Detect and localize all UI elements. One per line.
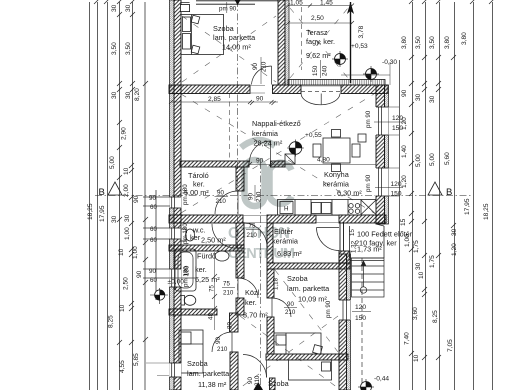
szoba1 door opening and arc [252, 66, 272, 85]
svg-text:Szoba: Szoba [213, 24, 235, 33]
door size labels nappali-közl [248, 191, 263, 202]
window right wall lower [339, 300, 351, 320]
south wall of nappali west segment [169, 215, 243, 223]
svg-text:210: 210 [261, 61, 268, 72]
svg-text:90: 90 [256, 158, 264, 165]
svg-text:pm 90: pm 90 [365, 174, 372, 192]
svg-text:150: 150 [355, 315, 366, 322]
svg-text:ker.: ker. [245, 298, 257, 307]
right outer wall upper [376, 85, 385, 224]
svg-text:Nappali-étkező: Nappali-étkező [252, 119, 301, 128]
bed bottom szoba [289, 360, 332, 380]
svg-text:8,25: 8,25 [432, 310, 439, 323]
south wall middle segment [267, 215, 316, 223]
svg-text:10: 10 [418, 271, 425, 279]
small square near table [358, 134, 366, 142]
svg-text:48: 48 [208, 313, 215, 320]
vertical section dash-dot line lower [259, 162, 261, 390]
bottom szoba left wall [270, 378, 276, 390]
right chain labels [400, 32, 490, 362]
svg-text:210: 210 [256, 191, 263, 202]
svg-text:B: B [446, 187, 452, 198]
taroló top wall stub east [271, 161, 286, 167]
svg-text:+0,55: +0,55 [305, 132, 322, 139]
dim line szoba1 bottom [169, 100, 278, 105]
svg-text:Terasz: Terasz [306, 28, 328, 37]
svg-text:3,50: 3,50 [125, 42, 132, 55]
top wall west segment [169, 85, 250, 94]
svg-text:+0,53: +0,53 [351, 43, 368, 50]
south wall east segment [339, 215, 386, 223]
wc bottom wall [169, 245, 244, 251]
svg-text:1,18: 1,18 [273, 277, 280, 290]
window left wall fürdő [169, 269, 181, 287]
svg-text:9,62 m²: 9,62 m² [306, 51, 331, 60]
svg-text:90: 90 [401, 89, 408, 97]
fürdő bottom wall [169, 309, 217, 315]
svg-text:80: 80 [227, 322, 234, 329]
svg-text:7,05: 7,05 [447, 339, 454, 352]
door előtér arc [317, 228, 340, 251]
svg-text:-0,44: -0,44 [374, 376, 389, 383]
svg-text:30: 30 [125, 91, 132, 99]
entry stairs [352, 258, 385, 297]
svg-text:2,85: 2,85 [208, 96, 221, 103]
svg-text:90: 90 [247, 377, 254, 384]
svg-text:1,20: 1,20 [401, 175, 408, 188]
svg-text:210: 210 [223, 290, 234, 297]
svg-text:lam. parketta: lam. parketta [187, 369, 230, 378]
svg-text:pm 90: pm 90 [365, 110, 372, 128]
terrace vertical dim arrow [347, 2, 354, 14]
svg-text:8,20: 8,20 [134, 88, 141, 101]
terrace right edge line [350, 2, 352, 83]
window right wall 1 [376, 107, 389, 135]
svg-text:2,00: 2,00 [123, 184, 130, 197]
level marker nappali [287, 140, 304, 157]
svg-text:3,60: 3,60 [412, 307, 419, 320]
window left wall taroló [169, 197, 181, 208]
svg-text:2,50: 2,50 [123, 277, 130, 290]
svg-text:10: 10 [123, 167, 130, 175]
svg-text:3,78: 3,78 [358, 25, 365, 38]
vertical section dash-dot line upper [237, 0, 239, 314]
svg-text:90: 90 [136, 270, 143, 278]
left outer wall insulation strip [170, 0, 175, 390]
szoba 10.09 door arc [272, 298, 291, 317]
bottom-left room right wall lower [230, 352, 238, 390]
section marker B left [99, 182, 123, 198]
svg-text:10: 10 [413, 354, 420, 362]
svg-text:210: 210 [254, 375, 261, 386]
left chain labels [87, 4, 143, 373]
svg-text:210: 210 [285, 309, 296, 316]
wc right wall [236, 223, 244, 248]
svg-text:75: 75 [223, 281, 230, 288]
svg-text:210: 210 [217, 346, 228, 353]
svg-text:15: 15 [349, 229, 356, 236]
svg-text:Szoba: Szoba [287, 274, 309, 283]
svg-text:8,25: 8,25 [108, 315, 115, 328]
svg-text:14,00 m²: 14,00 m² [222, 43, 251, 52]
svg-text:6,83 m²: 6,83 m² [277, 249, 302, 258]
svg-text:1,00: 1,00 [124, 227, 131, 240]
svg-text:pm 180: pm 180 [182, 184, 189, 205]
svg-text:Szoba: Szoba [268, 379, 290, 388]
dashed pm line nappali [228, 93, 230, 160]
fürdő-közl wall lower [236, 298, 244, 315]
svg-text:1,45: 1,45 [320, 0, 333, 7]
svg-text:B: B [99, 187, 105, 198]
window left wall bottom room [146, 363, 181, 377]
svg-text:Fürdő: Fürdő [197, 252, 216, 261]
svg-text:75: 75 [209, 285, 216, 292]
svg-text:10: 10 [119, 304, 126, 312]
svg-text:210: 210 [247, 232, 258, 239]
dashed diagonals nappali [181, 94, 374, 213]
level marker -0.30 [363, 66, 379, 82]
svg-text:ker.: ker. [195, 265, 207, 274]
overhang dashed line bottom right [361, 258, 363, 390]
terasz door size label [312, 65, 329, 76]
left window dims column [149, 195, 157, 284]
svg-text:1,00: 1,00 [404, 234, 411, 247]
right wall corner connector lines [341, 62, 399, 196]
level marker terasz [332, 51, 348, 67]
svg-text:60: 60 [150, 237, 157, 244]
bed bottom-left room [179, 330, 203, 373]
svg-text:30: 30 [124, 214, 131, 222]
section marker B right [428, 182, 452, 198]
közl-előtér wall [267, 223, 273, 263]
szoba 10.09 left wall upper [267, 269, 274, 298]
small table nappali [285, 154, 295, 164]
dashed diagonals szoba1 [182, 16, 276, 82]
terrace double door [301, 91, 340, 105]
taroló top wall [180, 161, 249, 167]
svg-text:30: 30 [451, 228, 458, 236]
top-left ledge box [180, 5, 189, 12]
kitchen boundary line [249, 164, 376, 166]
bottom-left room door arc [212, 332, 232, 352]
svg-text:30: 30 [125, 4, 132, 12]
svg-text:1,73 m²: 1,73 m² [357, 245, 382, 254]
bed szoba 10.09 [274, 333, 322, 354]
svg-text:lam. parketta: lam. parketta [287, 284, 330, 293]
svg-text:3,50: 3,50 [111, 42, 118, 55]
svg-text:180: 180 [184, 265, 191, 276]
front door wall stubs [340, 222, 344, 251]
svg-text:kerámia: kerámia [272, 237, 299, 246]
svg-text:3,50: 3,50 [415, 36, 422, 49]
svg-text:pm 90: pm 90 [219, 6, 237, 13]
svg-text:6,25 m²: 6,25 m² [195, 275, 220, 284]
svg-text:-0,30: -0,30 [382, 59, 397, 66]
svg-text:Konyha: Konyha [324, 170, 350, 179]
dashed diagonals bottom rooms [240, 270, 338, 388]
svg-text:10,09 m²: 10,09 m² [298, 295, 327, 304]
window left wall wc [169, 228, 181, 239]
top wall east segment [341, 85, 388, 94]
szoba 10.09 left wall lower [267, 317, 274, 354]
svg-text:240: 240 [322, 65, 329, 76]
door nappali arc at taroló top wall [250, 141, 271, 162]
right dimension chain lines [400, 2, 493, 390]
svg-text:3,80: 3,80 [444, 36, 451, 49]
svg-text:90: 90 [248, 193, 255, 200]
tick marks right chains [409, 0, 494, 360]
fürdő-közl wall upper [236, 251, 244, 278]
tick marks left chains [94, 0, 148, 345]
top window lines szoba1 [196, 1, 278, 4]
bed szoba1 [181, 15, 224, 55]
taroló door arc [215, 191, 238, 214]
svg-text:30: 30 [429, 95, 436, 103]
svg-text:5,85: 5,85 [133, 353, 140, 366]
bath tub [175, 249, 196, 291]
level marker 0.00 [150, 288, 168, 304]
dim 90 taroló top [248, 162, 273, 166]
svg-text:1,40: 1,40 [401, 145, 408, 158]
svg-text:5,00: 5,00 [429, 153, 436, 166]
svg-text:5,00: 5,00 [109, 156, 116, 169]
fedett előtér outline [350, 224, 384, 258]
section arrow bottom [254, 382, 264, 390]
svg-text:90: 90 [287, 301, 294, 308]
svg-text:1,20: 1,20 [451, 243, 458, 256]
dashed diagonals terasz [290, 8, 348, 78]
svg-text:90: 90 [133, 195, 140, 203]
svg-text:ker: ker [190, 233, 201, 242]
svg-text:1,20: 1,20 [401, 117, 408, 130]
svg-text:4,55: 4,55 [119, 360, 126, 373]
fürdő toilet [181, 295, 196, 305]
svg-text:Szoba: Szoba [187, 359, 209, 368]
left dimension chain lines [90, 2, 157, 390]
svg-text:30: 30 [415, 262, 422, 270]
svg-text:75: 75 [249, 223, 256, 230]
svg-text:kerámia: kerámia [323, 180, 350, 189]
svg-text:2,50: 2,50 [311, 15, 324, 22]
svg-text:18,25: 18,25 [87, 203, 94, 220]
svg-text:Közl.: Közl. [245, 288, 261, 297]
dining table and chairs [313, 130, 360, 172]
svg-text:1,75: 1,75 [429, 255, 436, 268]
dashed vertical pm line terasz [301, 7, 303, 70]
svg-text:18,25: 18,25 [483, 203, 490, 220]
svg-text:60: 60 [150, 226, 157, 233]
taroló right wall [236, 167, 244, 191]
top wall stub at terasz [273, 85, 302, 94]
door közl arc [243, 223, 267, 247]
svg-text:60: 60 [150, 204, 157, 211]
svg-text:210: 210 [216, 198, 227, 205]
level marker -0.44 [358, 379, 374, 390]
svg-text:90: 90 [252, 63, 259, 70]
fürdő door arc [238, 278, 258, 298]
svg-text:H: H [284, 206, 288, 213]
svg-text:3,80: 3,80 [461, 32, 468, 45]
svg-text:30: 30 [111, 91, 118, 99]
svg-text:2,90: 2,90 [121, 127, 128, 140]
svg-text:lam. parketta: lam. parketta [213, 33, 256, 42]
svg-text:4,80: 4,80 [317, 157, 330, 164]
svg-text:11,38 m²: 11,38 m² [198, 380, 227, 389]
svg-text:2,50 m²: 2,50 m² [201, 236, 226, 245]
terrace deck edge band [288, 80, 385, 86]
right outer wall lower [339, 254, 347, 390]
bottom szoba door arc [243, 355, 267, 378]
left outer wall [174, 0, 181, 390]
svg-text:17,95: 17,95 [464, 198, 471, 215]
svg-text:17,95: 17,95 [99, 205, 106, 222]
svg-text:3,70 m²: 3,70 m² [243, 311, 268, 320]
svg-text:28,24 m²: 28,24 m² [254, 139, 283, 148]
svg-text:6,30 m²: 6,30 m² [337, 189, 362, 198]
terrace top dim line 2 [286, 21, 354, 25]
svg-text:120: 120 [355, 304, 366, 311]
kitchen counter [278, 200, 377, 216]
svg-text:kerámia: kerámia [252, 129, 279, 138]
bottom wall szoba 10.09 [266, 354, 348, 360]
section arrow top [235, 0, 241, 5]
svg-text:15: 15 [400, 218, 407, 226]
door thresholds [243, 86, 341, 223]
svg-text:fagy. ker.: fagy. ker. [306, 37, 335, 46]
watermark logo OC [241, 140, 292, 206]
svg-text:90: 90 [217, 190, 224, 197]
svg-text:3,80: 3,80 [401, 36, 408, 49]
svg-text:30: 30 [111, 4, 118, 12]
svg-text:Előtér: Előtér [274, 227, 294, 236]
window right wall 2 [376, 168, 389, 196]
svg-text:90: 90 [215, 337, 222, 344]
svg-text:10: 10 [118, 248, 125, 256]
front door leaf [349, 226, 351, 258]
svg-text:30: 30 [415, 93, 422, 101]
svg-text:90: 90 [256, 96, 264, 103]
fürdő washbasin [215, 251, 229, 261]
svg-text:3,50: 3,50 [429, 36, 436, 49]
svg-text:150: 150 [312, 65, 319, 76]
svg-text:7,40: 7,40 [404, 332, 411, 345]
terrace top dim line 1 [286, 4, 354, 8]
svg-text:1,05: 1,05 [290, 0, 303, 7]
svg-text:90: 90 [149, 195, 156, 202]
svg-text:150: 150 [391, 191, 402, 198]
wall between szoba1 and terasz [278, 0, 285, 85]
wc door arc [212, 224, 236, 248]
wc toilet [181, 229, 195, 241]
door size bottom szoba [247, 375, 261, 386]
svg-text:5,60: 5,60 [444, 152, 451, 165]
svg-text:5,00: 5,00 [415, 154, 422, 167]
bottom-left room right wall upper [230, 313, 239, 332]
svg-text:pm 90: pm 90 [325, 300, 332, 318]
section line B-B horizontal [95, 195, 473, 197]
svg-text:pm 180: pm 180 [182, 223, 189, 244]
left window connector lines [143, 197, 196, 278]
svg-text:1,75: 1,75 [413, 240, 420, 253]
szoba 10.09 top wall [267, 263, 350, 269]
interior dim line fürdő [214, 252, 216, 330]
